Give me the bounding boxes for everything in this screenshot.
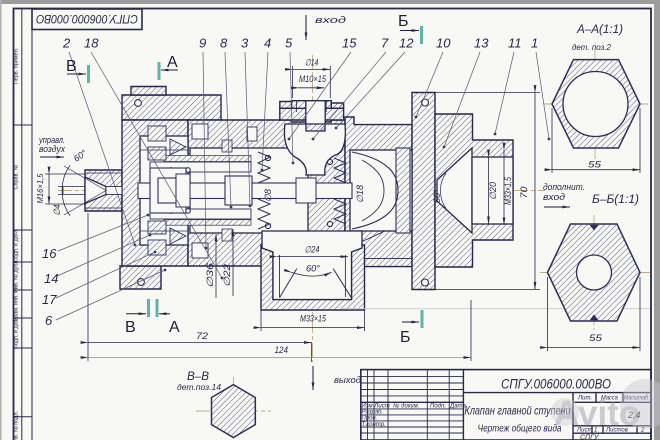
svg-text:выход: выход (334, 375, 361, 385)
svg-text:15: 15 (342, 36, 357, 51)
svg-text:∅36: ∅36 (205, 263, 215, 288)
svg-text:8: 8 (220, 36, 228, 51)
svg-text:60°: 60° (432, 189, 442, 203)
svg-text:Перв. примен.: Перв. примен. (14, 47, 20, 84)
svg-text:воздух: воздух (39, 144, 65, 154)
svg-text:55: 55 (588, 160, 602, 170)
svg-text:Подп. и дата: Подп. и дата (14, 316, 20, 349)
svg-text:Б–Б(1:1): Б–Б(1:1) (592, 192, 639, 206)
svg-text:∅4: ∅4 (52, 205, 62, 216)
svg-text:А: А (169, 319, 180, 336)
svg-text:Дата: Дата (449, 404, 466, 410)
svg-text:72: 72 (196, 331, 208, 341)
svg-text:70: 70 (519, 187, 529, 199)
svg-text:М33×1,5: М33×1,5 (503, 176, 513, 205)
svg-text:вход: вход (315, 15, 346, 25)
svg-text:∅8: ∅8 (263, 189, 273, 202)
svg-text:В: В (125, 319, 136, 336)
svg-text:Инв. № подл.: Инв. № подл. (14, 410, 20, 440)
svg-text:∅18: ∅18 (355, 185, 365, 203)
svg-text:∅20: ∅20 (488, 182, 498, 200)
svg-text:вход: вход (543, 192, 565, 202)
svg-text:∅14: ∅14 (305, 58, 319, 68)
svg-text:Подп.: Подп. (430, 404, 446, 410)
svg-text:∅24: ∅24 (305, 245, 320, 255)
svg-text:13: 13 (474, 36, 489, 51)
svg-text:дополнит.: дополнит. (543, 182, 585, 192)
svg-text:дет. поз.2: дет. поз.2 (572, 43, 612, 52)
svg-text:А: А (167, 54, 178, 71)
svg-text:дет.поз.14: дет.поз.14 (177, 383, 222, 392)
svg-text:Подп. и дата: Подп. и дата (14, 229, 20, 262)
svg-text:6: 6 (45, 313, 53, 328)
svg-text:1: 1 (531, 36, 538, 51)
svg-text:60°: 60° (306, 264, 320, 274)
svg-text:10: 10 (436, 36, 451, 51)
svg-text:М10×15: М10×15 (299, 74, 327, 84)
svg-text:3: 3 (241, 36, 249, 51)
svg-text:55: 55 (589, 333, 603, 343)
svg-text:Чертеж общего вида: Чертеж общего вида (478, 423, 562, 435)
svg-text:СПГУ: СПГУ (580, 435, 600, 440)
svg-text:Б: Б (398, 13, 409, 30)
svg-text:11: 11 (508, 36, 522, 51)
svg-text:В: В (66, 58, 77, 75)
svg-text:А–А(1:1): А–А(1:1) (576, 22, 623, 36)
svg-text:Пров.: Пров. (362, 416, 378, 422)
svg-text:2: 2 (62, 36, 71, 51)
svg-text:18: 18 (84, 36, 99, 51)
svg-text:5: 5 (285, 36, 293, 51)
svg-text:№ докум.: № докум. (393, 403, 419, 410)
svg-text:14: 14 (44, 271, 58, 286)
svg-text:М33×15: М33×15 (300, 314, 327, 324)
svg-text:12: 12 (399, 36, 414, 51)
svg-text:Б: Б (400, 329, 411, 346)
svg-text:17: 17 (42, 292, 57, 307)
svg-text:7: 7 (381, 36, 389, 51)
svg-text:9: 9 (199, 36, 206, 51)
svg-text:Справ. №: Справ. № (14, 164, 20, 189)
svg-text:В–В: В–В (187, 369, 209, 383)
svg-text:СПГУ.006000.000ВО: СПГУ.006000.000ВО (501, 377, 611, 392)
svg-text:4: 4 (264, 36, 271, 51)
svg-text:124: 124 (275, 345, 289, 355)
svg-text:Взам. инв. №: Взам. инв. № (14, 287, 20, 321)
svg-text:М16×1,5: М16×1,5 (36, 173, 45, 204)
svg-text:16: 16 (42, 246, 57, 261)
svg-text:∅22: ∅22 (222, 264, 232, 287)
svg-text:СПГУ.006000.000ВО: СПГУ.006000.000ВО (36, 12, 138, 26)
svg-text:Т.контр.: Т.контр. (362, 422, 386, 428)
svg-text:Avito: Avito (554, 394, 640, 433)
